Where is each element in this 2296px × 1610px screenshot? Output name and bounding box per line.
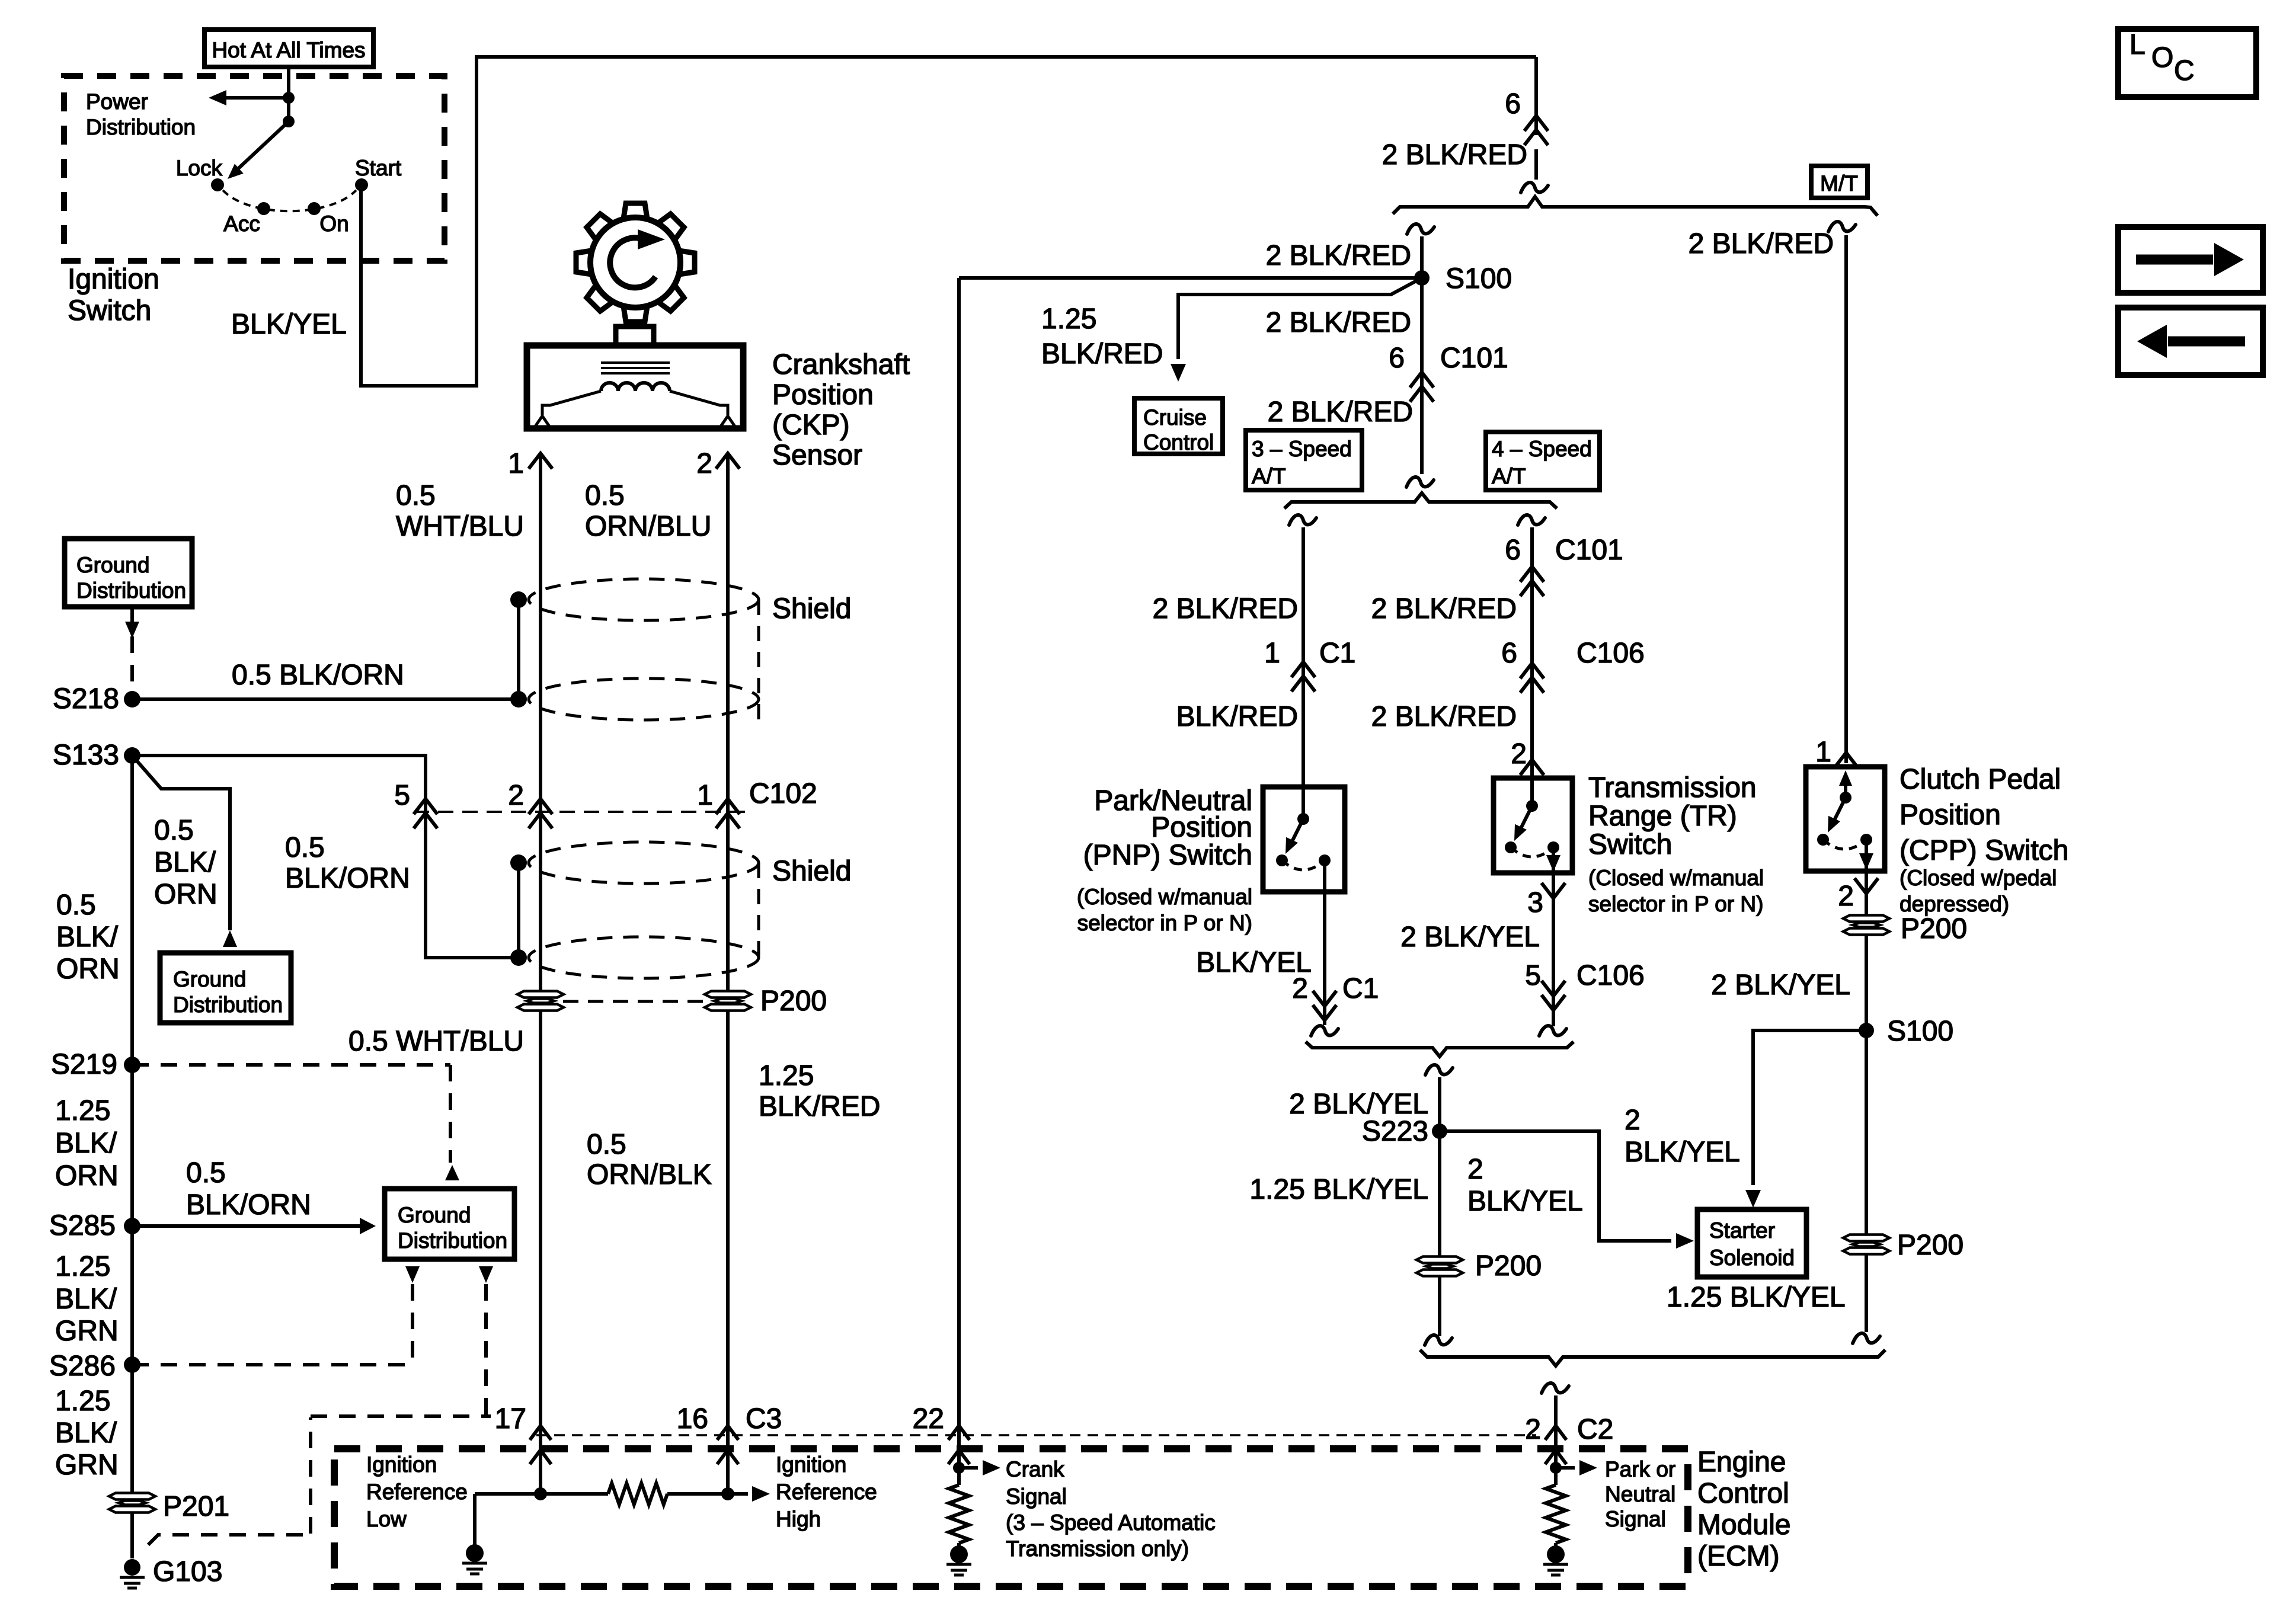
svg-text:Sensor: Sensor [772, 440, 862, 471]
svg-text:Switch: Switch [68, 295, 151, 327]
svg-text:2: 2 [696, 448, 712, 479]
svg-text:C2: C2 [1577, 1414, 1613, 1445]
svg-text:C106: C106 [1576, 638, 1645, 669]
svg-text:Distribution: Distribution [86, 115, 196, 139]
svg-text:BLK/: BLK/ [55, 1283, 117, 1315]
svg-text:(Closed w/pedal: (Closed w/pedal [1900, 866, 2057, 890]
svg-text:Engine: Engine [1697, 1446, 1786, 1478]
svg-text:G103: G103 [153, 1556, 222, 1587]
svg-text:Transmission only): Transmission only) [1006, 1537, 1189, 1561]
svg-text:Shield: Shield [772, 593, 851, 625]
svg-text:ORN: ORN [56, 953, 120, 985]
svg-text:Solenoid: Solenoid [1709, 1246, 1795, 1270]
svg-text:ORN: ORN [55, 1160, 119, 1192]
svg-text:depressed): depressed) [1900, 892, 2009, 916]
svg-text:Clutch Pedal: Clutch Pedal [1900, 764, 2061, 795]
svg-text:(Closed w/manual: (Closed w/manual [1588, 866, 1764, 890]
svg-text:Distribution: Distribution [76, 578, 186, 603]
svg-text:C3: C3 [746, 1403, 782, 1435]
svg-text:P200: P200 [760, 985, 827, 1017]
svg-text:C101: C101 [1555, 534, 1623, 566]
svg-text:Reference: Reference [366, 1480, 468, 1504]
svg-text:(CKP): (CKP) [772, 409, 850, 441]
svg-text:Ignition: Ignition [776, 1452, 846, 1477]
svg-text:1.25 BLK/YEL: 1.25 BLK/YEL [1249, 1174, 1428, 1205]
svg-text:Start: Start [355, 156, 402, 180]
svg-text:(3 – Speed Automatic: (3 – Speed Automatic [1006, 1510, 1216, 1535]
svg-text:Position: Position [772, 379, 874, 411]
svg-text:Ground: Ground [76, 553, 149, 577]
svg-text:0.5 BLK/ORN: 0.5 BLK/ORN [232, 660, 404, 691]
svg-text:6: 6 [1389, 343, 1405, 374]
svg-text:Power: Power [86, 89, 148, 114]
svg-text:BLK/YEL: BLK/YEL [1467, 1186, 1583, 1217]
svg-text:Crankshaft: Crankshaft [772, 349, 910, 380]
svg-text:2 BLK/RED: 2 BLK/RED [1371, 701, 1517, 732]
svg-text:ORN: ORN [154, 879, 218, 910]
svg-text:1.25: 1.25 [759, 1060, 814, 1092]
svg-text:S285: S285 [49, 1210, 116, 1241]
svg-text:On: On [319, 212, 348, 236]
svg-text:P200: P200 [1901, 913, 1967, 945]
svg-text:22: 22 [913, 1403, 944, 1435]
svg-text:Shield: Shield [772, 856, 851, 887]
svg-text:P200: P200 [1475, 1250, 1542, 1282]
svg-text:0.5: 0.5 [396, 480, 436, 511]
svg-text:17: 17 [495, 1403, 526, 1435]
svg-text:BLK/YEL: BLK/YEL [1625, 1137, 1740, 1168]
svg-text:Neutral: Neutral [1605, 1482, 1675, 1506]
svg-text:selector in P or N): selector in P or N) [1588, 892, 1763, 916]
svg-text:S218: S218 [53, 683, 119, 715]
svg-text:High: High [776, 1507, 821, 1531]
svg-text:Acc: Acc [223, 212, 260, 236]
svg-text:1.25: 1.25 [55, 1385, 110, 1417]
svg-text:P200: P200 [1897, 1230, 1964, 1261]
svg-text:Switch: Switch [1588, 829, 1672, 860]
svg-text:S223: S223 [1362, 1116, 1428, 1147]
svg-text:GRN: GRN [55, 1449, 119, 1481]
svg-text:0.5: 0.5 [285, 832, 325, 863]
svg-text:2: 2 [1511, 738, 1527, 770]
svg-text:5: 5 [1525, 960, 1541, 991]
svg-text:BLK/RED: BLK/RED [1041, 338, 1163, 370]
svg-text:6: 6 [1505, 534, 1521, 566]
svg-text:C1: C1 [1319, 638, 1355, 669]
svg-text:Position: Position [1151, 812, 1252, 843]
svg-text:1: 1 [1815, 737, 1831, 768]
svg-text:Ground: Ground [398, 1203, 471, 1227]
svg-text:Signal: Signal [1605, 1507, 1666, 1531]
svg-text:0.5: 0.5 [56, 889, 96, 921]
svg-text:0.5: 0.5 [587, 1129, 626, 1160]
svg-text:A/T: A/T [1492, 464, 1526, 488]
svg-text:2 BLK/RED: 2 BLK/RED [1268, 396, 1413, 428]
svg-text:Lock: Lock [176, 156, 223, 180]
svg-text:S133: S133 [53, 740, 119, 771]
svg-text:(CPP) Switch: (CPP) Switch [1900, 835, 2068, 866]
svg-text:ORN/BLU: ORN/BLU [585, 511, 711, 542]
svg-text:1.25 BLK/YEL: 1.25 BLK/YEL [1667, 1282, 1846, 1313]
svg-text:S219: S219 [51, 1049, 117, 1080]
svg-text:S100: S100 [1887, 1016, 1953, 1047]
svg-text:2: 2 [1838, 881, 1854, 912]
svg-text:2 BLK/RED: 2 BLK/RED [1153, 593, 1298, 625]
svg-text:0.5: 0.5 [585, 480, 625, 511]
svg-text:(PNP) Switch: (PNP) Switch [1083, 840, 1252, 871]
svg-text:3 – Speed: 3 – Speed [1252, 437, 1352, 461]
svg-text:Control: Control [1143, 430, 1214, 454]
svg-text:Module: Module [1697, 1509, 1790, 1541]
svg-text:Control: Control [1697, 1478, 1789, 1509]
svg-text:1: 1 [1264, 638, 1280, 669]
svg-text:M/T: M/T [1820, 171, 1858, 196]
svg-text:Transmission: Transmission [1588, 772, 1757, 804]
svg-text:6: 6 [1501, 638, 1517, 669]
svg-text:WHT/BLU: WHT/BLU [396, 511, 524, 542]
svg-text:0.5: 0.5 [186, 1157, 226, 1189]
svg-text:2 BLK/RED: 2 BLK/RED [1689, 228, 1834, 260]
svg-text:BLK/: BLK/ [56, 921, 119, 953]
svg-text:0.5 WHT/BLU: 0.5 WHT/BLU [348, 1026, 524, 1057]
svg-text:Distribution: Distribution [398, 1228, 507, 1253]
svg-text:BLK/ORN: BLK/ORN [285, 863, 410, 894]
svg-text:Ignition: Ignition [68, 264, 159, 295]
svg-text:Range (TR): Range (TR) [1588, 801, 1737, 832]
svg-text:Reference: Reference [776, 1480, 877, 1504]
svg-text:Hot At All Times: Hot At All Times [212, 38, 365, 62]
svg-text:selector in P or N): selector in P or N) [1077, 911, 1252, 935]
svg-text:Ignition: Ignition [366, 1452, 437, 1477]
svg-text:(Closed w/manual: (Closed w/manual [1077, 885, 1252, 909]
svg-text:BLK/: BLK/ [154, 847, 216, 878]
svg-text:Crank: Crank [1006, 1457, 1064, 1481]
svg-text:2: 2 [508, 780, 524, 811]
svg-text:Signal: Signal [1006, 1484, 1067, 1509]
svg-text:1: 1 [697, 780, 713, 811]
svg-text:P201: P201 [163, 1491, 229, 1522]
svg-text:2: 2 [1467, 1154, 1483, 1185]
svg-text:C106: C106 [1576, 960, 1645, 991]
svg-text:2 BLK/RED: 2 BLK/RED [1371, 593, 1517, 625]
svg-text:2 BLK/RED: 2 BLK/RED [1382, 139, 1527, 171]
svg-text:1.25: 1.25 [55, 1095, 110, 1126]
svg-text:2: 2 [1292, 973, 1308, 1004]
svg-text:2: 2 [1625, 1105, 1641, 1136]
svg-text:BLK/YEL: BLK/YEL [231, 309, 347, 340]
svg-text:O: O [2151, 42, 2173, 73]
svg-text:ORN/BLK: ORN/BLK [587, 1159, 712, 1190]
svg-text:16: 16 [677, 1403, 708, 1435]
svg-text:Ground: Ground [173, 967, 246, 991]
svg-text:2 BLK/RED: 2 BLK/RED [1266, 307, 1411, 338]
svg-text:1: 1 [508, 448, 524, 479]
svg-text:5: 5 [394, 780, 410, 811]
svg-text:BLK/RED: BLK/RED [1176, 701, 1298, 732]
svg-text:Cruise: Cruise [1143, 405, 1207, 430]
svg-text:6: 6 [1505, 88, 1521, 120]
svg-text:1.25: 1.25 [55, 1251, 110, 1282]
svg-text:3: 3 [1527, 887, 1543, 918]
svg-text:BLK/ORN: BLK/ORN [186, 1189, 311, 1221]
svg-text:Park or: Park or [1605, 1457, 1675, 1481]
svg-text:BLK/: BLK/ [55, 1417, 117, 1449]
svg-text:BLK/: BLK/ [55, 1128, 117, 1159]
svg-text:C1: C1 [1342, 973, 1379, 1004]
svg-text:C: C [2174, 55, 2195, 87]
svg-text:2 BLK/RED: 2 BLK/RED [1266, 240, 1411, 271]
svg-text:Distribution: Distribution [173, 993, 283, 1017]
svg-text:2: 2 [1525, 1414, 1541, 1445]
svg-text:2 BLK/YEL: 2 BLK/YEL [1400, 921, 1540, 953]
svg-text:Starter: Starter [1709, 1218, 1775, 1243]
svg-text:(ECM): (ECM) [1697, 1541, 1780, 1572]
svg-text:1.25: 1.25 [1041, 303, 1096, 335]
svg-text:2 BLK/YEL: 2 BLK/YEL [1711, 969, 1850, 1001]
svg-text:C101: C101 [1440, 343, 1508, 374]
svg-text:L: L [2129, 29, 2145, 60]
svg-text:BLK/RED: BLK/RED [759, 1091, 880, 1122]
svg-text:Low: Low [366, 1507, 407, 1531]
svg-text:A/T: A/T [1252, 464, 1286, 488]
svg-text:S286: S286 [49, 1350, 116, 1382]
svg-text:S100: S100 [1446, 263, 1512, 295]
svg-text:Position: Position [1900, 799, 2001, 831]
svg-text:GRN: GRN [55, 1315, 119, 1347]
svg-text:4 – Speed: 4 – Speed [1492, 437, 1592, 461]
svg-text:C102: C102 [749, 778, 817, 809]
svg-text:0.5: 0.5 [154, 815, 194, 846]
